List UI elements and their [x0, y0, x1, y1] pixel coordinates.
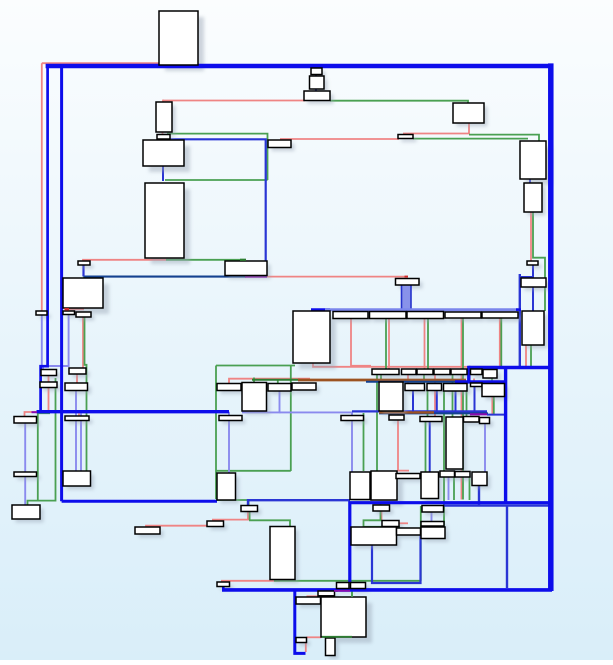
- wire n2: [379, 412, 488, 414]
- box N2: [242, 383, 267, 412]
- box J5: [482, 312, 518, 318]
- wire g23b: [364, 511, 381, 527]
- box T7: [351, 583, 366, 589]
- wire s7: [403, 123, 469, 134]
- box E5: [522, 311, 544, 345]
- box E1: [520, 141, 546, 179]
- box N6: [405, 384, 425, 391]
- wire m15: [529, 179, 531, 183]
- wire l9: [484, 424, 486, 473]
- wire l6b: [280, 411, 353, 413]
- wire s17: [229, 379, 310, 384]
- wire g23: [380, 503, 382, 505]
- box L6: [471, 369, 483, 375]
- box P1: [14, 417, 37, 424]
- box A2: [310, 76, 325, 89]
- wire g27: [216, 499, 248, 501]
- box O2: [389, 415, 404, 420]
- wire thick t2: [548, 63, 554, 591]
- wire band bus: [402, 285, 412, 311]
- box E4: [521, 278, 546, 287]
- wire s12d: [499, 318, 501, 368]
- box N4: [292, 383, 316, 390]
- wire g28c: [290, 366, 292, 471]
- wire m1: [170, 139, 266, 276]
- box Q1: [217, 473, 236, 500]
- wire thick t9a: [222, 588, 552, 592]
- wire s6: [280, 138, 399, 140]
- wire thick t7b: [467, 366, 470, 382]
- wire l5b: [75, 421, 77, 472]
- wire g11: [423, 375, 425, 384]
- box I1: [396, 279, 420, 286]
- wire thick t11c: [516, 308, 521, 311]
- wire g10b: [493, 397, 495, 415]
- wire s25: [381, 511, 383, 521]
- wire g4: [330, 101, 468, 103]
- wire s12b: [424, 319, 426, 370]
- box M2: [69, 368, 86, 374]
- box B1: [156, 102, 172, 132]
- box N7: [427, 384, 442, 391]
- box G5: [36, 311, 47, 315]
- box N3: [268, 384, 291, 392]
- wire thick t1: [46, 64, 553, 69]
- wire f_arrow1: [240, 259, 246, 261]
- wire thick t8a: [350, 503, 550, 583]
- wire s1: [41, 63, 43, 311]
- box H1: [225, 261, 267, 276]
- wire br2: [379, 411, 434, 413]
- wire g22a: [248, 501, 250, 506]
- wire g30: [277, 381, 279, 384]
- wire s22: [65, 308, 84, 310]
- wire s15: [491, 397, 493, 415]
- wire g24: [364, 526, 401, 528]
- wire thick t11b: [325, 308, 518, 311]
- wire thick t5: [41, 64, 48, 412]
- box N9: [471, 383, 483, 387]
- wire s14b: [434, 391, 436, 417]
- wire gbr: [252, 379, 300, 381]
- wire l5c: [80, 414, 82, 472]
- box J3: [407, 312, 444, 319]
- wire l3a: [24, 423, 26, 472]
- box T1: [159, 11, 198, 65]
- wire m3a: [520, 265, 533, 277]
- wire mq8: [478, 486, 480, 507]
- wire g21: [249, 520, 290, 526]
- wire f_pur2: [32, 411, 38, 413]
- wire g33a: [351, 589, 353, 598]
- wire s11: [313, 363, 497, 367]
- box S4: [270, 527, 295, 580]
- wire l6: [242, 391, 280, 412]
- box R2: [421, 522, 444, 527]
- box O5: [464, 417, 480, 423]
- wire m11: [474, 387, 476, 412]
- box L4: [434, 369, 450, 375]
- wire m9: [412, 391, 414, 412]
- box N10: [482, 384, 505, 397]
- wire s16: [398, 412, 409, 471]
- box Q3: [371, 471, 397, 500]
- wire g1: [167, 134, 268, 180]
- wire l1: [41, 315, 43, 370]
- wire g20: [38, 413, 50, 500]
- wire g22b: [249, 512, 251, 521]
- wire g12b: [452, 391, 454, 417]
- box J2: [370, 312, 407, 319]
- box M4: [65, 383, 88, 391]
- wire f_arrow2: [405, 276, 409, 278]
- box M1: [41, 370, 57, 376]
- box S3: [241, 506, 258, 512]
- wire s13: [351, 319, 371, 366]
- box S1: [135, 527, 160, 534]
- box P4: [63, 471, 91, 486]
- box L5: [451, 369, 467, 375]
- box S5: [217, 582, 230, 587]
- wire s33: [305, 643, 307, 653]
- wire m18: [162, 166, 164, 181]
- wire s20b: [25, 388, 49, 417]
- wire s_p2: [78, 414, 80, 417]
- box T4: [351, 527, 397, 545]
- wire m2: [519, 274, 521, 367]
- wire l2: [43, 315, 69, 370]
- wire s3: [83, 260, 166, 261]
- wire s22b: [67, 309, 69, 311]
- wire thick t10: [295, 590, 306, 654]
- wire thick t7c: [504, 368, 507, 503]
- box R1: [422, 506, 444, 513]
- wire l11: [448, 476, 450, 501]
- wire m16: [82, 265, 84, 277]
- wire s9: [267, 276, 408, 278]
- wire s29: [307, 636, 322, 638]
- box L7: [483, 370, 497, 379]
- wire g31: [253, 378, 255, 384]
- box T5: [397, 528, 421, 535]
- wire f_grn1: [351, 592, 353, 597]
- box Q6: [440, 471, 455, 477]
- box N1: [217, 384, 241, 391]
- wire g6: [413, 138, 528, 140]
- wire s8: [530, 212, 532, 261]
- box Q4: [396, 474, 420, 479]
- wire m17b: [315, 89, 317, 91]
- wire s4: [163, 100, 305, 102]
- wire s27: [221, 580, 280, 582]
- box L2: [402, 369, 417, 375]
- box L3: [417, 369, 433, 375]
- box T6: [337, 583, 350, 589]
- box G2: [63, 278, 103, 308]
- wire br1: [298, 379, 466, 382]
- wire g5: [469, 135, 539, 141]
- wire s26: [399, 522, 408, 524]
- box O3: [420, 417, 442, 422]
- box P5: [12, 505, 40, 519]
- box G1: [78, 261, 90, 265]
- box N8: [444, 384, 468, 392]
- wire s14a: [434, 375, 436, 384]
- box T2: [373, 505, 390, 511]
- wire g17b: [469, 476, 471, 501]
- wire m17a: [315, 75, 317, 77]
- wire m13: [436, 391, 438, 412]
- wire l10: [431, 512, 433, 522]
- wire g9d: [427, 319, 429, 370]
- wire g11b: [427, 391, 429, 417]
- wire g33b: [336, 589, 338, 593]
- wire m5: [248, 500, 350, 505]
- wire thick t4: [62, 500, 217, 503]
- box F1: [145, 183, 184, 258]
- wire m4a: [506, 506, 508, 588]
- wire thick t6: [37, 410, 230, 413]
- wire thick t11: [311, 308, 330, 311]
- wire g16: [443, 391, 445, 527]
- wire m10: [455, 391, 457, 412]
- box R3: [421, 527, 445, 539]
- wire l8: [228, 412, 230, 473]
- wire thick t3: [60, 64, 63, 501]
- box O4: [446, 417, 463, 469]
- box T12: [326, 638, 336, 656]
- wire m2x: [487, 414, 505, 416]
- wire m3b: [532, 287, 534, 311]
- box M3: [40, 382, 57, 388]
- box J4: [445, 312, 481, 318]
- wire thick t7d: [455, 380, 507, 383]
- wire g45: [83, 277, 85, 279]
- box A1: [311, 68, 322, 75]
- box E2: [524, 183, 542, 212]
- wire m4b: [443, 504, 552, 506]
- box L1: [372, 369, 399, 375]
- wire p1: [245, 276, 267, 278]
- wire g28b: [215, 366, 217, 500]
- wire g12c: [466, 391, 468, 417]
- wire l7: [351, 412, 353, 473]
- wire f_dg1: [322, 636, 352, 638]
- box A3: [304, 91, 330, 101]
- wire f_red_g2: [65, 308, 70, 310]
- wire g14: [363, 413, 365, 471]
- box T10: [321, 597, 366, 637]
- wire s2: [42, 62, 159, 64]
- box B3: [143, 140, 184, 166]
- wire g15: [425, 422, 427, 472]
- wire g7: [533, 212, 545, 311]
- box E3: [527, 261, 538, 265]
- box O7: [219, 416, 242, 421]
- wire g8: [530, 345, 532, 366]
- wire g28a: [216, 365, 295, 367]
- wire g19: [28, 378, 56, 505]
- box C1: [268, 140, 291, 148]
- wire s21: [82, 317, 84, 368]
- wire s5: [162, 132, 164, 135]
- box B2: [157, 135, 170, 140]
- wire m7: [429, 422, 431, 473]
- box G4: [76, 312, 91, 317]
- box Q5: [421, 472, 439, 499]
- box G3: [63, 311, 75, 315]
- box Q8: [472, 472, 487, 486]
- wire g2: [165, 179, 268, 181]
- box D1: [453, 103, 484, 123]
- wire thick t7a: [469, 366, 552, 370]
- wire g17a: [453, 476, 455, 501]
- box J1: [333, 312, 368, 319]
- wire g36: [380, 375, 382, 383]
- wire s20: [48, 376, 50, 383]
- wire l3b: [24, 477, 26, 506]
- box Q7: [455, 472, 470, 478]
- wire s24: [212, 512, 248, 520]
- wire g9a: [462, 318, 464, 500]
- wire thick t9b: [222, 587, 225, 590]
- box O1: [341, 416, 364, 421]
- box T3: [382, 521, 399, 527]
- box N5: [379, 382, 403, 411]
- wire s12a: [388, 319, 390, 370]
- wire s4b: [162, 100, 164, 102]
- wire s23: [146, 526, 209, 527]
- wire g9b: [500, 318, 502, 368]
- box O6: [480, 418, 490, 424]
- wire f_pur1: [334, 590, 350, 592]
- box P2: [65, 416, 89, 421]
- box T9: [296, 597, 321, 604]
- wire g18: [85, 317, 87, 471]
- box T11: [296, 638, 307, 643]
- wire s_n9: [473, 379, 475, 384]
- wire s19: [76, 374, 78, 383]
- wire s14c: [407, 375, 409, 384]
- wire g13: [376, 375, 378, 471]
- wire s28: [307, 595, 321, 597]
- box Q2: [350, 472, 370, 500]
- wire l5a: [75, 391, 77, 417]
- wire g3: [166, 259, 246, 261]
- wire g10: [491, 378, 493, 384]
- wire n2a: [366, 381, 456, 383]
- wire n1: [84, 276, 246, 278]
- wire s12c: [461, 318, 463, 500]
- box K1: [293, 311, 330, 363]
- wire g28d: [217, 470, 291, 472]
- box T8: [318, 591, 335, 596]
- wire g25: [274, 580, 421, 582]
- wire s10: [525, 345, 527, 367]
- wire g9c: [385, 319, 387, 370]
- wire g12: [452, 375, 454, 384]
- box P3: [14, 472, 37, 477]
- box C2: [398, 135, 413, 139]
- box S2: [207, 521, 224, 527]
- wire g25b: [420, 506, 422, 581]
- wire mb9: [352, 410, 487, 412]
- wire m19: [372, 535, 421, 583]
- wire p2: [470, 413, 487, 415]
